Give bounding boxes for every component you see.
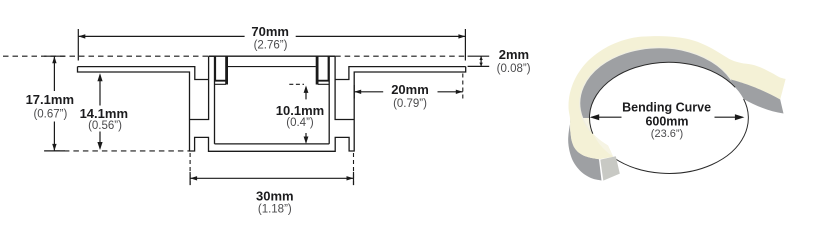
profile outer boundary	[78, 67, 466, 152]
arrowheads	[52, 34, 483, 180]
svg-text:2mm: 2mm	[499, 47, 529, 62]
10.1mm	[289, 83, 304, 85]
flange top + groove left	[78, 67, 209, 80]
pocket right	[335, 80, 354, 120]
inner wall thickening	[215, 57, 328, 81]
inner floor	[215, 143, 330, 145]
svg-text:30mm: 30mm	[256, 189, 294, 204]
svg-text:(0.08”): (0.08”)	[497, 63, 531, 75]
dashed top surface line	[3, 55, 465, 57]
inner ceiling	[228, 66, 316, 68]
14.1mm	[99, 75, 101, 149]
svg-text:17.1mm: 17.1mm	[26, 92, 74, 107]
gray outer sliver lower-left	[568, 119, 601, 181]
ledges	[214, 83, 329, 85]
lip + inner wall left	[209, 56, 215, 144]
17.1	[52, 56, 56, 63]
svg-text:(23.6”): (23.6”)	[651, 128, 683, 140]
cover top	[209, 55, 336, 57]
svg-text:20mm: 20mm	[391, 82, 429, 97]
highlight seam between cream and gray	[580, 48, 734, 131]
2mm	[468, 56, 490, 66]
10.1mm	[304, 86, 309, 93]
tail gray	[731, 80, 784, 114]
30mm	[190, 176, 197, 180]
20mm	[354, 90, 361, 94]
lip outer faces	[209, 56, 336, 79]
svg-text:(0.4”): (0.4”)	[286, 117, 314, 129]
svg-text:70mm: 70mm	[251, 24, 289, 39]
70mm	[78, 34, 85, 38]
svg-text:600mm: 600mm	[645, 115, 688, 129]
svg-text:10.1mm: 10.1mm	[276, 103, 324, 118]
dashed bottom line	[54, 150, 189, 152]
17.1mm	[44, 56, 65, 151]
2mm	[479, 56, 482, 60]
pocket left	[190, 80, 209, 120]
gray inner lens	[580, 48, 735, 134]
arrow	[592, 116, 743, 118]
pale inner face lower-left	[583, 118, 614, 157]
flange top + groove right	[335, 67, 466, 80]
svg-text:Bending Curve: Bending Curve	[622, 100, 711, 114]
svg-text:(1.18”): (1.18”)	[258, 203, 292, 215]
svg-text:(0.67”): (0.67”)	[33, 108, 67, 120]
cover bottom connectors	[215, 80, 330, 82]
lip + inner wall right	[329, 56, 335, 144]
ellipse	[589, 62, 748, 173]
svg-text:(2.76”): (2.76”)	[254, 40, 288, 52]
svg-text:14.1mm: 14.1mm	[80, 106, 128, 121]
cover legs (thick)	[225, 57, 228, 85]
14.1 arrow up / down	[97, 73, 102, 81]
20mm	[353, 85, 355, 99]
cream band (ring + tail)	[569, 36, 786, 159]
svg-text:(0.56”): (0.56”)	[88, 120, 122, 132]
70mm	[78, 29, 465, 61]
cut face	[600, 156, 620, 180]
30mm	[190, 172, 353, 185]
svg-text:(0.79”): (0.79”)	[393, 98, 427, 110]
